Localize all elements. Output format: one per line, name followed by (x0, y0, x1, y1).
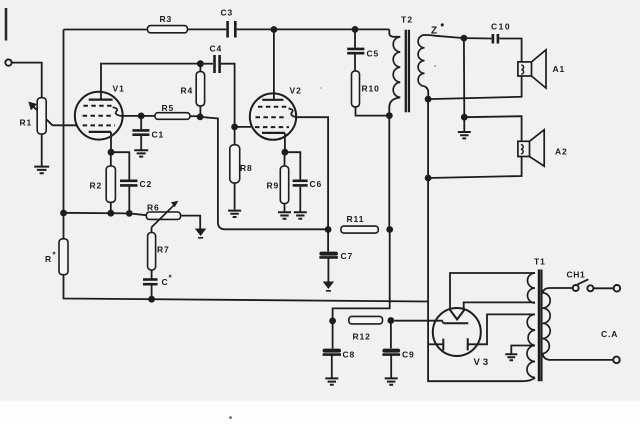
svg-text:C3: C3 (221, 8, 234, 18)
svg-text:Z: Z (431, 26, 438, 37)
svg-text:C10: C10 (491, 22, 511, 32)
svg-text:C2: C2 (140, 179, 153, 189)
svg-text:A2: A2 (555, 147, 568, 157)
svg-text:V3: V3 (474, 357, 492, 368)
svg-text:R10: R10 (362, 84, 380, 94)
svg-text:R7: R7 (157, 245, 170, 255)
svg-text:R11: R11 (347, 214, 365, 224)
svg-text:T2: T2 (401, 15, 413, 25)
svg-text:R: R (45, 254, 52, 264)
svg-text:C.A: C.A (601, 329, 618, 339)
svg-text:V2: V2 (290, 86, 302, 96)
svg-text:C8: C8 (343, 350, 356, 360)
svg-text:R12: R12 (353, 332, 371, 342)
svg-text:C7: C7 (341, 251, 354, 261)
svg-text:R3: R3 (160, 14, 173, 24)
svg-text:R6: R6 (147, 203, 160, 213)
svg-text:C1: C1 (152, 130, 165, 140)
svg-text:T1: T1 (534, 257, 546, 267)
svg-text:R8: R8 (240, 163, 253, 173)
svg-text:C5: C5 (367, 49, 380, 59)
svg-text:C: C (162, 277, 169, 287)
svg-text:A1: A1 (553, 64, 566, 74)
svg-text:R4: R4 (181, 86, 194, 96)
svg-text:CH1: CH1 (567, 270, 586, 280)
svg-text:C4: C4 (210, 44, 223, 54)
svg-text:R1: R1 (20, 118, 33, 128)
svg-text:R9: R9 (267, 181, 280, 191)
svg-text:V1: V1 (113, 84, 125, 94)
svg-text:C9: C9 (402, 350, 415, 360)
svg-text:R2: R2 (90, 181, 103, 191)
svg-text:R5: R5 (162, 103, 175, 113)
svg-text:C6: C6 (310, 179, 323, 189)
